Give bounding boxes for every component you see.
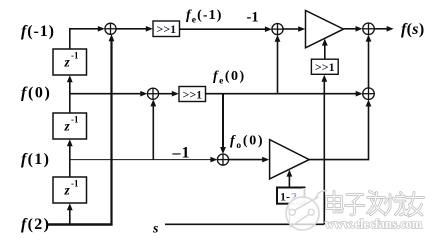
coefficient box B4 (1-s) xyxy=(277,188,305,205)
svg-text:-1: -1 xyxy=(247,10,259,26)
arrow into A2 bottom xyxy=(150,99,156,106)
arrow into z2 bottom xyxy=(67,139,73,146)
arrow into z1 bottom xyxy=(67,75,73,82)
arrow into A4 bottom xyxy=(366,35,372,42)
arrow into S2 left xyxy=(172,91,179,97)
svg-text:-1: -1 xyxy=(71,115,79,125)
arrow into A5 left xyxy=(356,91,363,97)
adder A1 xyxy=(105,23,116,34)
amplifier triangle T1 xyxy=(306,11,344,48)
wire z3 input from f(2) line xyxy=(69,208,71,225)
wire f(1) row horizontal thin to adder A6 xyxy=(70,159,212,161)
svg-text:z: z xyxy=(64,183,71,198)
arrow into T1 left xyxy=(298,26,305,32)
wire branch f(1) up into adder A2 xyxy=(152,104,154,160)
arrow into S3 bottom xyxy=(321,75,327,82)
svg-text:s: s xyxy=(152,222,159,237)
arrowheads xyxy=(67,26,394,210)
arrow into A3 left xyxy=(265,26,272,32)
shift box S2 xyxy=(179,87,206,102)
svg-text:-1: -1 xyxy=(71,51,79,61)
svg-text:fo(0): fo(0) xyxy=(230,134,264,152)
wire z3 output up to f(1) junction xyxy=(69,160,71,177)
arrow into A6 left xyxy=(210,157,217,163)
shift box S3 xyxy=(311,59,338,74)
svg-text:fe(-1): fe(-1) xyxy=(186,8,222,26)
svg-text:www.elecfans.com: www.elecfans.com xyxy=(325,217,423,231)
svg-text:f(1): f(1) xyxy=(21,151,50,168)
svg-text:>>1: >>1 xyxy=(157,22,177,36)
adder A2 xyxy=(147,88,158,99)
svg-text:z: z xyxy=(64,55,71,70)
arrow into A3 bottom xyxy=(275,35,281,42)
svg-text:f(-1): f(-1) xyxy=(21,23,55,40)
adder A5 xyxy=(363,88,375,100)
watermark logo blob over box B4 xyxy=(289,188,314,213)
adder A4 xyxy=(363,23,375,35)
svg-text:>>1: >>1 xyxy=(315,60,335,74)
arrow into A5 bottom xyxy=(366,100,372,107)
wire branch f_e(0) down into adder A6 xyxy=(222,94,224,150)
adder A3 xyxy=(272,24,283,35)
svg-text:1-: 1- xyxy=(280,190,290,204)
arrow into T2 left xyxy=(262,157,269,163)
wire f(2) vertical thick up to adder A1 xyxy=(110,39,112,225)
svg-text:–1: –1 xyxy=(172,145,191,162)
wire z2 input from f(1) junction xyxy=(69,144,71,160)
wire T1 apex to adder A4 xyxy=(344,28,357,30)
arrow into z3 bottom xyxy=(67,203,73,210)
watermark text dianzifashaoyou xyxy=(327,192,424,217)
wire S3 output up into triangle T1 bottom xyxy=(324,44,326,60)
amplifier triangle T2 xyxy=(270,140,310,179)
arrow into A6 top xyxy=(220,147,226,154)
wire A2 to shift box S2 xyxy=(159,93,173,95)
arrow f(s) output xyxy=(387,26,394,32)
wire T2 apex right and up into adder A5 xyxy=(309,104,368,160)
svg-text:f(2): f(2) xyxy=(21,216,50,233)
arrow into A4 left xyxy=(356,26,363,32)
wire A4 to f(s) output xyxy=(374,28,387,30)
delay box Z1 xyxy=(53,49,87,75)
svg-text:f(s): f(s) xyxy=(401,21,424,38)
wire s row horizontal xyxy=(165,223,324,225)
wire s vertical up to shift box S3 xyxy=(323,80,325,225)
watermark logo circle xyxy=(286,191,327,231)
svg-text:fe(0): fe(0) xyxy=(213,69,246,87)
arrow into A2 left xyxy=(140,91,147,97)
arrow into T1 bottom xyxy=(322,39,328,46)
arrow into A1 bottom xyxy=(109,34,115,41)
svg-text:f(0): f(0) xyxy=(21,85,51,102)
wire S2 output f_e(0) row to adder A5 xyxy=(206,93,357,95)
svg-text:z: z xyxy=(64,119,71,134)
wire s branch up into box B4 faint xyxy=(288,209,290,224)
shift box S1 xyxy=(153,21,180,37)
arrow into T2 bottom xyxy=(287,170,293,177)
arrow into A1 left xyxy=(98,26,105,32)
wire A5 up into adder A4 xyxy=(368,39,370,88)
wire A1 to shift box S1 xyxy=(116,28,146,30)
wire branch f_e(0) up into adder A3 xyxy=(277,39,279,93)
wire S1 output to adder A3 xyxy=(180,28,266,30)
adder A6 xyxy=(217,154,228,165)
wire z2 output up to f(0) junction xyxy=(69,94,71,113)
wire A3 to triangle T1 xyxy=(283,28,299,30)
arrow into B4 bottom faint xyxy=(287,204,292,210)
delay box Z3 xyxy=(53,177,87,203)
wire A6 to triangle T2 xyxy=(229,159,263,161)
wire f(0) row horizontal to adder A2 xyxy=(70,93,142,95)
wire box B4 output up into triangle T2 bottom xyxy=(288,174,290,188)
wire z1 output up from box top to f(-1) corner (already) ; z1 input from f(0) junction xyxy=(69,80,71,94)
svg-text:>>1: >>1 xyxy=(183,88,203,102)
arrow into S1 left xyxy=(146,26,153,32)
wire f(2) row horizontal thick xyxy=(48,223,113,225)
wire f(-1) tap: up from z1 box and right to adder A1 xyxy=(70,29,99,49)
delay box Z2 xyxy=(53,113,87,139)
svg-text:-1: -1 xyxy=(71,179,79,189)
